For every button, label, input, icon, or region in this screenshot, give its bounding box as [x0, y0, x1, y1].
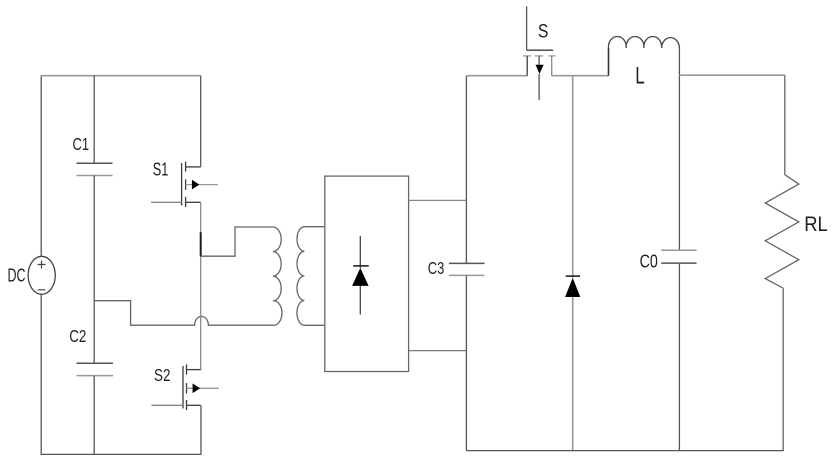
wire C3 column lower: [465, 275, 467, 450]
wire left vertical upper (DC top to top rail): [40, 76, 42, 257]
capacitor C3: [449, 263, 485, 275]
capacitor C1: [77, 76, 113, 176]
wire output top rail: [679, 74, 784, 76]
wire midpoint step to primary bottom (with hop over bridge column): [94, 301, 273, 326]
svg-text:S2: S2: [154, 365, 170, 385]
wire bottom rail left: [41, 453, 202, 455]
svg-text:L: L: [635, 63, 645, 90]
MOSFET S1: [151, 162, 218, 207]
diode D2: [565, 276, 580, 297]
diode D2 column lower: [572, 297, 574, 451]
wire S2 source column: [200, 406, 202, 455]
wire dark segment on bridge column: [200, 232, 202, 256]
diode D2 (freewheeling) column upper: [572, 76, 574, 278]
wire secondary top lead: [304, 226, 324, 228]
wire bottom rail right: [466, 450, 783, 452]
wire S right to inductor: [551, 75, 608, 77]
wire C0 column lower: [678, 263, 680, 451]
svg-text:C2: C2: [69, 326, 86, 346]
svg-text:RL: RL: [804, 213, 828, 236]
svg-text:DC: DC: [8, 265, 26, 286]
wire top rail to S left: [466, 75, 527, 77]
wire C0 column upper (from inductor): [678, 46, 680, 250]
wire top rail left: [41, 75, 201, 77]
svg-text:C1: C1: [73, 134, 90, 154]
wire C1 to C2 column: [93, 176, 95, 364]
transformer primary winding: [273, 227, 282, 325]
wire S1 drain column: [200, 76, 202, 167]
capacitor C2: [77, 363, 114, 454]
DC source: [28, 256, 55, 294]
wire C3 column upper: [465, 76, 467, 264]
wire secondary bottom lead: [304, 324, 324, 326]
wire left vertical lower (DC bottom to bottom rail): [40, 294, 42, 454]
svg-text:C0: C0: [640, 251, 658, 272]
inductor L: [608, 36, 679, 75]
svg-text:S1: S1: [153, 159, 169, 179]
svg-text:S: S: [538, 21, 549, 42]
transformer secondary winding: [297, 227, 304, 326]
capacitor C0: [661, 250, 696, 263]
svg-text:C3: C3: [428, 258, 445, 278]
wire rectifier upper output: [409, 199, 467, 201]
resistor RL: [765, 75, 799, 450]
MOSFET S: [523, 6, 555, 100]
diode D1 (in rectifier): [352, 236, 369, 315]
rectifier box: [325, 176, 409, 371]
wire bridge mid column (S1 source to S2 drain): [200, 202, 202, 369]
MOSFET S2: [151, 364, 219, 410]
wire primary top lead: [201, 227, 273, 256]
wire rectifier lower output: [409, 350, 467, 352]
